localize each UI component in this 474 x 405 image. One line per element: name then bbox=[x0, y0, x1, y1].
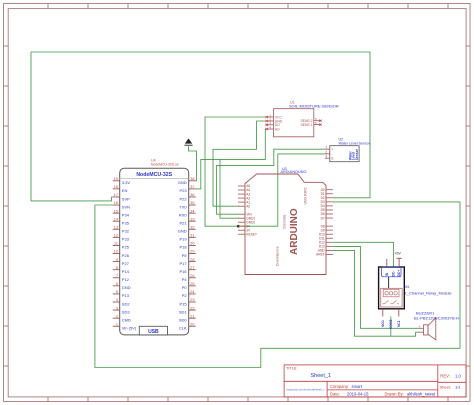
svg-text:BL-PBZ120NC2003YB-H: BL-PBZ120NC2003YB-H bbox=[414, 316, 459, 321]
svg-text:28: 28 bbox=[190, 258, 194, 262]
svg-text:EN: EN bbox=[122, 188, 128, 193]
svg-text:SVN: SVN bbox=[122, 204, 130, 209]
svg-text:NodeMCU-32S.us: NodeMCU-32S.us bbox=[151, 163, 179, 167]
svg-text:1_Channel_Relay_Module: 1_Channel_Relay_Module bbox=[405, 291, 453, 296]
svg-text:GND: GND bbox=[122, 285, 131, 290]
svg-text:P2: P2 bbox=[182, 293, 188, 298]
svg-text:20: 20 bbox=[190, 322, 194, 326]
svg-text:23: 23 bbox=[190, 298, 194, 302]
svg-text:10: 10 bbox=[114, 250, 118, 254]
svg-text:Vin (5V): Vin (5V) bbox=[122, 326, 137, 331]
svg-text:P26: P26 bbox=[122, 253, 130, 258]
svg-text:NO1: NO1 bbox=[381, 320, 385, 327]
svg-text:TX0: TX0 bbox=[179, 204, 187, 209]
svg-text:CMD: CMD bbox=[122, 317, 131, 322]
svg-text:8: 8 bbox=[116, 266, 118, 270]
svg-text:38: 38 bbox=[190, 177, 194, 181]
svg-text:SOIL-MOISTURE-SENSOR: SOIL-MOISTURE-SENSOR bbox=[289, 103, 339, 108]
svg-text:11: 11 bbox=[114, 242, 118, 246]
svg-text:P32: P32 bbox=[122, 229, 130, 234]
svg-text:6: 6 bbox=[116, 282, 118, 286]
svg-text:5: 5 bbox=[116, 290, 118, 294]
svg-text:Sensor: Sensor bbox=[355, 148, 359, 160]
svg-text:3: 3 bbox=[116, 306, 118, 310]
svg-text:35: 35 bbox=[190, 201, 194, 205]
svg-text:31: 31 bbox=[190, 234, 194, 238]
svg-text:32: 32 bbox=[190, 225, 194, 229]
svg-text:COM1: COM1 bbox=[389, 319, 393, 329]
svg-text:3.3V: 3.3V bbox=[122, 180, 131, 185]
svg-text:33: 33 bbox=[190, 217, 194, 221]
svg-text:SVP: SVP bbox=[122, 196, 130, 201]
svg-text:GND: GND bbox=[178, 180, 187, 185]
svg-text:SD2: SD2 bbox=[122, 301, 131, 306]
svg-text:2: 2 bbox=[116, 314, 118, 318]
svg-text:P14: P14 bbox=[122, 269, 130, 274]
svg-text:P23: P23 bbox=[179, 188, 187, 193]
svg-text:30: 30 bbox=[190, 242, 194, 246]
svg-text:P27: P27 bbox=[122, 261, 130, 266]
svg-text:ARDUINOUNO: ARDUINOUNO bbox=[281, 170, 307, 174]
svg-text:9: 9 bbox=[116, 258, 118, 262]
svg-text:SENS.1: SENS.1 bbox=[300, 123, 312, 127]
svg-text:2019-04-15: 2019-04-15 bbox=[347, 392, 369, 397]
svg-text:14: 14 bbox=[114, 217, 118, 221]
svg-text:18: 18 bbox=[114, 185, 118, 189]
svg-text:A0: A0 bbox=[246, 204, 250, 208]
svg-text:M1: M1 bbox=[405, 285, 410, 289]
svg-text:P25: P25 bbox=[122, 245, 130, 250]
svg-text:P21: P21 bbox=[179, 221, 187, 226]
svg-text:SD0: SD0 bbox=[179, 317, 188, 322]
svg-text:P33: P33 bbox=[122, 237, 130, 242]
svg-text:3: 3 bbox=[325, 155, 327, 159]
svg-text:P4: P4 bbox=[182, 277, 188, 282]
svg-text:Sheet:: Sheet: bbox=[440, 384, 452, 389]
svg-text:P13: P13 bbox=[122, 293, 130, 298]
svg-text:smart: smart bbox=[352, 384, 363, 389]
svg-text:Company:: Company: bbox=[330, 384, 349, 389]
svg-text:1: 1 bbox=[325, 146, 327, 150]
svg-text:DC+: DC+ bbox=[397, 270, 401, 277]
svg-text:13: 13 bbox=[114, 225, 118, 229]
svg-text:P15: P15 bbox=[179, 301, 187, 306]
svg-text:26: 26 bbox=[190, 274, 194, 278]
svg-text:CLK: CLK bbox=[179, 326, 187, 331]
svg-text:P12: P12 bbox=[122, 277, 130, 282]
svg-text:NodeMCU-32S: NodeMCU-32S bbox=[136, 172, 172, 178]
svg-text:P34: P34 bbox=[122, 212, 130, 217]
svg-text:RX0: RX0 bbox=[179, 212, 188, 217]
svg-text:UNO R3R2: UNO R3R2 bbox=[304, 187, 308, 204]
svg-text:27: 27 bbox=[190, 266, 194, 270]
svg-text:1.0: 1.0 bbox=[455, 374, 461, 379]
svg-text:D7: D7 bbox=[321, 216, 325, 220]
svg-text:21: 21 bbox=[190, 314, 194, 318]
svg-text:easyeda.com/user/akhilesh_r: easyeda.com/user/akhilesh_r bbox=[287, 388, 325, 392]
svg-text:29: 29 bbox=[190, 250, 194, 254]
svg-text:P16: P16 bbox=[179, 269, 187, 274]
svg-text:ARDUINO: ARDUINO bbox=[289, 208, 300, 255]
svg-text:16: 16 bbox=[114, 201, 118, 205]
svg-text:Date:: Date: bbox=[330, 392, 340, 397]
svg-text:Water Level Sensor: Water Level Sensor bbox=[339, 141, 371, 145]
svg-text:P17: P17 bbox=[179, 261, 187, 266]
svg-text:17: 17 bbox=[114, 193, 118, 197]
svg-text:REV:: REV: bbox=[440, 374, 450, 379]
svg-text:RESET: RESET bbox=[246, 232, 257, 236]
svg-text:25: 25 bbox=[190, 282, 194, 286]
svg-text:P0: P0 bbox=[182, 285, 188, 290]
svg-text:1/1: 1/1 bbox=[455, 384, 461, 389]
svg-text:P5: P5 bbox=[182, 253, 188, 258]
svg-text:GND: GND bbox=[178, 229, 187, 234]
svg-text:TITLE:: TITLE: bbox=[286, 367, 297, 371]
svg-text:15: 15 bbox=[114, 209, 118, 213]
svg-text:P18: P18 bbox=[179, 245, 187, 250]
svg-text:34: 34 bbox=[190, 209, 194, 213]
svg-text:Drawn By:: Drawn By: bbox=[385, 392, 404, 397]
svg-text:Duemilanove: Duemilanove bbox=[276, 246, 280, 266]
svg-text:36: 36 bbox=[190, 193, 194, 197]
svg-text:24: 24 bbox=[190, 290, 194, 294]
svg-text:SD1: SD1 bbox=[179, 309, 188, 314]
svg-text:P22: P22 bbox=[179, 196, 187, 201]
svg-text:AREF: AREF bbox=[316, 253, 325, 257]
svg-text:SD3: SD3 bbox=[122, 309, 131, 314]
svg-text:+5V: +5V bbox=[394, 252, 401, 256]
svg-text:P19: P19 bbox=[179, 237, 187, 242]
svg-text:19: 19 bbox=[114, 177, 118, 181]
svg-text:Diecimila: Diecimila bbox=[283, 215, 287, 229]
svg-text:1: 1 bbox=[116, 322, 118, 326]
svg-text:22: 22 bbox=[190, 306, 194, 310]
svg-text:+: + bbox=[331, 148, 333, 152]
svg-text:AO: AO bbox=[275, 127, 280, 131]
svg-text:USB: USB bbox=[148, 329, 159, 335]
svg-text:NC1: NC1 bbox=[397, 320, 401, 327]
svg-text:akhilesh_rawat: akhilesh_rawat bbox=[407, 392, 436, 397]
svg-text:DC-: DC- bbox=[391, 271, 395, 277]
svg-text:37: 37 bbox=[190, 185, 194, 189]
svg-text:12: 12 bbox=[114, 234, 118, 238]
svg-text:P35: P35 bbox=[122, 221, 130, 226]
svg-text:4: 4 bbox=[116, 298, 118, 302]
svg-text:7: 7 bbox=[116, 274, 118, 278]
svg-text:Sheet_1: Sheet_1 bbox=[311, 373, 332, 379]
